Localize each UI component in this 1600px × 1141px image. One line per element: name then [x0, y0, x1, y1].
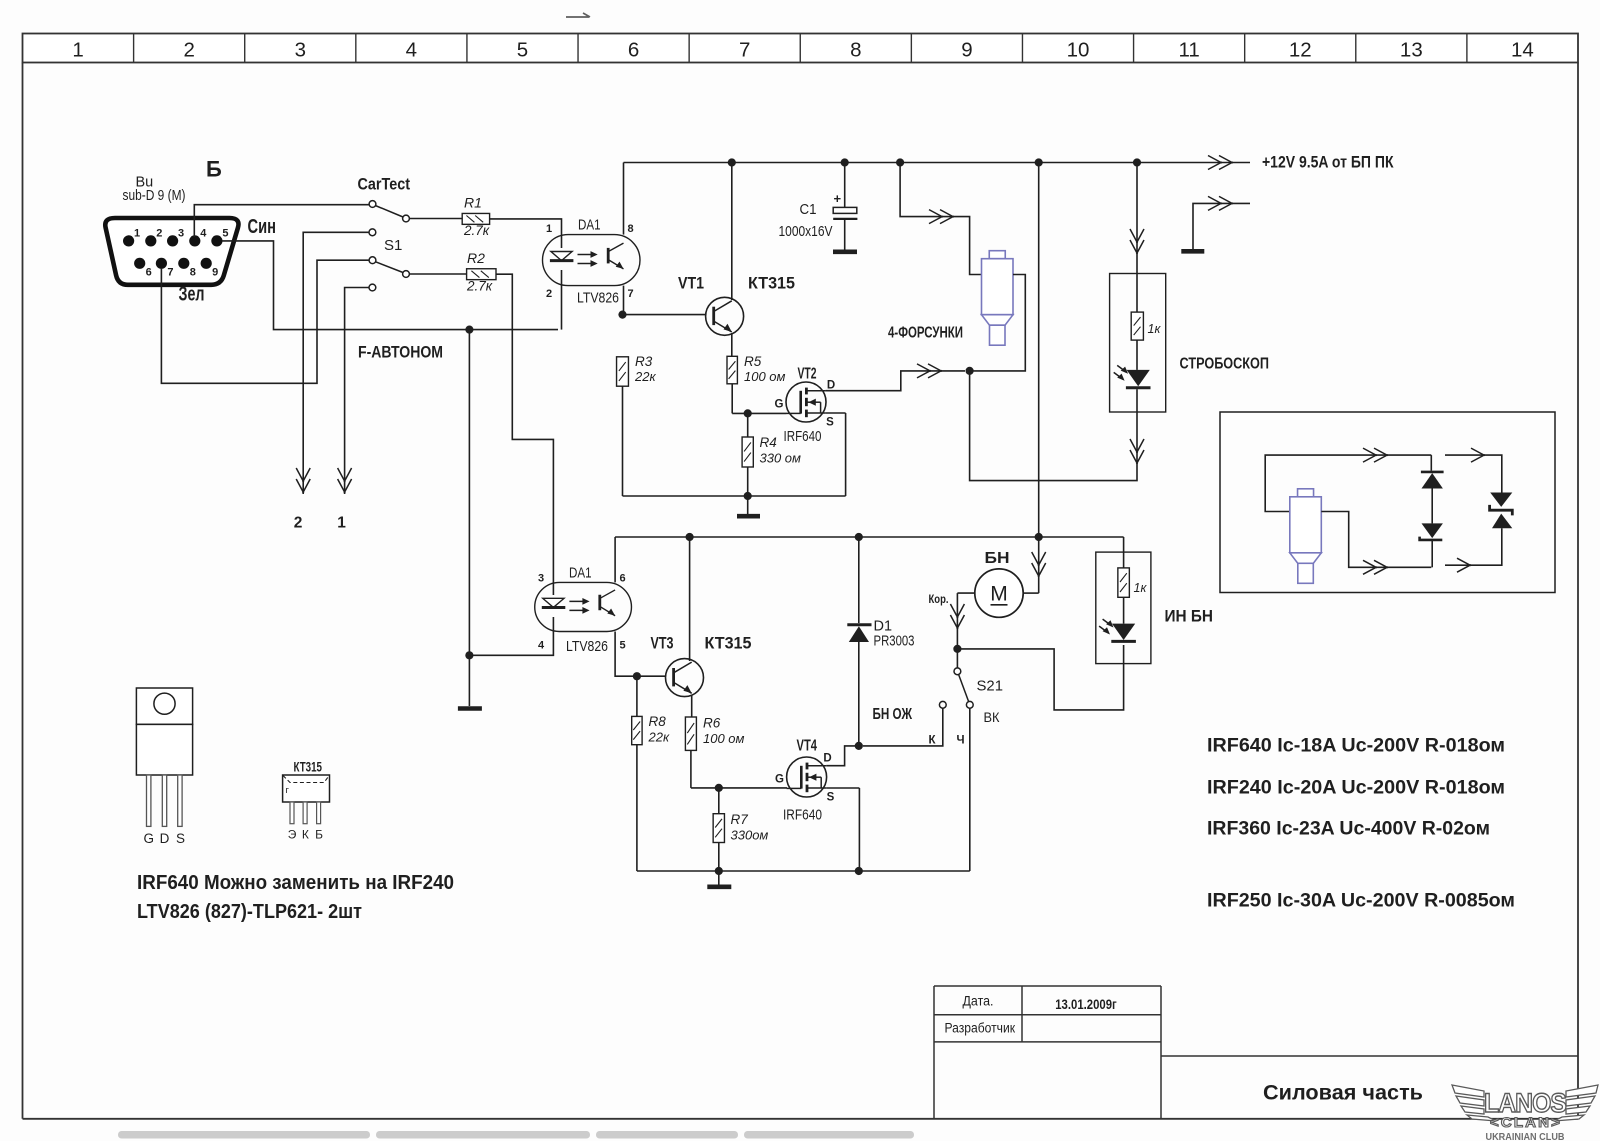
wire VT1 emitter to R5: [731, 333, 733, 356]
wire to S21: [956, 649, 958, 668]
svg-text:1: 1: [546, 223, 552, 235]
wire strobe r top: [1136, 274, 1138, 313]
svg-text:M: M: [990, 583, 1008, 606]
wire rail to lower rail: [1038, 163, 1040, 538]
gnd bus VT1 stage: [623, 495, 846, 497]
wire R2 to opto2 pin3: [496, 274, 553, 595]
svg-text:4: 4: [200, 228, 207, 240]
wire opto pin2 down: [561, 270, 563, 330]
wire to VT4 gate: [691, 787, 787, 789]
svg-text:9: 9: [212, 267, 218, 279]
svg-text:S21: S21: [977, 678, 1004, 695]
LED strobe: [1114, 365, 1151, 387]
svg-text:sub-D 9 (M): sub-D 9 (M): [123, 188, 186, 204]
svg-text:VT3: VT3: [651, 634, 674, 653]
svg-text:Б: Б: [206, 157, 222, 182]
wire VT1 collector to rail: [731, 163, 733, 301]
junction: [896, 158, 904, 166]
arrow strobe out: [1130, 439, 1144, 464]
svg-text:5: 5: [517, 39, 528, 62]
svg-text:D1: D1: [874, 619, 893, 635]
svg-text:14: 14: [1511, 39, 1534, 62]
transistor VT3 KT315: [666, 659, 704, 697]
svg-text:R4: R4: [760, 435, 777, 450]
arrow TVS top: [1471, 448, 1485, 462]
wire Sin gnd drop: [468, 330, 470, 656]
svg-text:G: G: [775, 399, 784, 411]
svg-text:<CLAN>: <CLAN>: [1490, 1114, 1562, 1130]
junction C1: [841, 158, 849, 166]
wire K to VT4 drain: [863, 708, 943, 746]
title block left: [933, 986, 935, 1119]
resistor R3: [617, 357, 629, 386]
svg-text:4: 4: [406, 39, 417, 62]
wire R1 to opto pin1: [490, 219, 562, 248]
resistor R4: [742, 437, 753, 467]
LANOS CLAN logo: [1452, 1085, 1598, 1141]
svg-text:8: 8: [627, 223, 633, 235]
junction: [855, 867, 863, 875]
svg-text:ВК: ВК: [984, 709, 1001, 725]
arrow +12V: [1208, 156, 1233, 170]
wire strobe r to LED: [1136, 340, 1138, 370]
arrow injector low: [917, 364, 942, 378]
svg-text:VT1: VT1: [678, 274, 704, 293]
wire C1 to gnd: [844, 219, 846, 250]
KT315 leg: [303, 802, 307, 824]
motor BN: [975, 569, 1023, 617]
KT315 package: [283, 775, 330, 802]
svg-text:ИН БН: ИН БН: [1165, 607, 1214, 626]
wire R7 down: [718, 843, 720, 872]
svg-text:6: 6: [619, 573, 625, 585]
CarTect lever: [375, 206, 403, 218]
resistor R6: [685, 717, 696, 750]
wire source to gnd bus: [858, 788, 860, 871]
svg-text:1к: 1к: [1148, 322, 1162, 336]
ruler divider: [1355, 34, 1357, 63]
svg-text:2.7к: 2.7к: [463, 223, 490, 238]
injector 4-FORSUNKI: [982, 251, 1014, 346]
svg-text:2: 2: [156, 228, 162, 240]
ruler divider: [133, 34, 135, 63]
wire test bottom: [1321, 512, 1431, 568]
svg-text:IRF250 Ic-30A Uc-200V R-0085: IRF250 Ic-30A Uc-200V R-0085ом: [1207, 891, 1515, 912]
arrow strobe in: [1130, 229, 1144, 254]
svg-text:IRF360 Ic-23A Uc-400V R-02ом: IRF360 Ic-23A Uc-400V R-02ом: [1207, 819, 1490, 840]
wire motor to switch: [956, 593, 958, 649]
title block line: [934, 1041, 1161, 1043]
wire to connector 1: [345, 288, 369, 495]
svg-text:R3: R3: [635, 354, 653, 369]
junction: [715, 867, 723, 875]
svg-text:Дата.: Дата.: [963, 994, 994, 1009]
resistor R5: [727, 356, 737, 384]
TO-220 leg: [147, 775, 151, 826]
S1 contact upper: [369, 257, 376, 264]
arrow test top: [1363, 448, 1388, 462]
svg-text:2: 2: [183, 39, 194, 62]
DB9 pin 6: [134, 258, 145, 269]
resistor R8: [632, 716, 642, 744]
mosfet VT2 IRF640: [786, 382, 826, 422]
svg-text:1: 1: [134, 228, 140, 240]
svg-text:DA1: DA1: [578, 217, 601, 234]
arrow Kor: [950, 604, 964, 629]
optocoupler DA1 upper: [543, 235, 640, 286]
DB9 pin 8: [178, 258, 189, 269]
capacitor C1 1000x16V: [833, 207, 857, 219]
svg-text:1к: 1к: [1134, 581, 1148, 595]
svg-text:1: 1: [337, 515, 346, 532]
DB9 pin 5: [211, 235, 222, 246]
wire VT2 drain: [826, 371, 965, 391]
title block divider: [1021, 986, 1023, 1042]
S21 moving contact: [954, 668, 961, 675]
svg-text:К: К: [302, 828, 309, 842]
ground return: [1181, 249, 1204, 254]
svg-text:3: 3: [178, 228, 184, 240]
svg-text:Силовая часть: Силовая часть: [1263, 1081, 1423, 1105]
svg-text:7: 7: [627, 288, 633, 300]
svg-text:5: 5: [619, 640, 625, 652]
junction: [855, 533, 863, 541]
title block line: [934, 1014, 1161, 1016]
ruler divider: [355, 34, 357, 63]
lower +12 rail: [615, 536, 1124, 538]
wire R3 to gnd rail: [622, 386, 624, 496]
wire D1 cathode to rail: [858, 537, 860, 623]
TVS bidirectional: [1490, 493, 1513, 529]
svg-text:4-ФОРСУНКИ: 4-ФОРСУНКИ: [888, 325, 963, 342]
junction gnd bus: [744, 492, 752, 500]
svg-text:22к: 22к: [648, 730, 670, 745]
LED IN BN: [1099, 619, 1136, 641]
+12V rail: [624, 162, 1251, 164]
junction: [686, 533, 694, 541]
svg-text:D: D: [823, 753, 831, 765]
arrow test bottom: [1363, 560, 1388, 574]
ruler divider: [910, 34, 912, 63]
wire VT3 emitter: [691, 695, 693, 718]
svg-text:г: г: [286, 785, 290, 796]
DB9 pin 7: [156, 258, 167, 269]
svg-text:S1: S1: [384, 237, 402, 254]
+12V return stub: [1193, 203, 1250, 249]
svg-text:КТ315: КТ315: [748, 274, 795, 293]
svg-text:LTV826 (827)-TLP621- 2шт: LTV826 (827)-TLP621- 2шт: [137, 900, 362, 923]
ground opto: [458, 706, 482, 711]
junction: [1035, 158, 1043, 166]
svg-text:1: 1: [72, 39, 83, 62]
IN BN box: [1096, 552, 1151, 664]
wire rail to motor: [1038, 537, 1040, 593]
svg-text:6: 6: [628, 39, 639, 62]
wire TVS top: [1445, 455, 1502, 492]
svg-text:330ом: 330ом: [731, 828, 769, 843]
svg-text:D: D: [160, 831, 170, 846]
left page border: [22, 63, 24, 1119]
junction gnd: [465, 651, 473, 659]
wire VT3 collector: [689, 537, 691, 661]
transistor VT1 KT315: [706, 297, 744, 335]
title block right: [1160, 986, 1162, 1119]
S21 contact K: [939, 701, 946, 708]
svg-text:IRF640 Ic-18A Uc-200V R-018о: IRF640 Ic-18A Uc-200V R-018ом: [1207, 736, 1505, 757]
S1 contact common: [403, 271, 410, 278]
svg-text:12: 12: [1289, 39, 1312, 62]
DB9 pin 9: [201, 258, 212, 269]
wire pin7 Zel to S1: [161, 260, 369, 383]
wire rail to injectors: [900, 163, 981, 275]
svg-text:D: D: [827, 380, 835, 392]
resistor 1k strobe: [1131, 312, 1143, 340]
KT315 leg: [290, 802, 294, 824]
svg-text:Разработчик: Разработчик: [945, 1021, 1016, 1036]
junction switch top: [953, 645, 961, 653]
svg-text:4: 4: [538, 640, 545, 652]
svg-text:F-АВТОНОМ: F-АВТОНОМ: [358, 343, 443, 362]
svg-text:G: G: [143, 831, 154, 846]
ruler divider: [244, 34, 246, 63]
svg-text:CarTect: CarTect: [358, 176, 411, 194]
diode up: [1421, 472, 1444, 489]
resistor R7: [713, 814, 724, 843]
wire rail to strobe: [1136, 163, 1138, 274]
svg-text:10: 10: [1067, 39, 1090, 62]
resistor R2: [467, 269, 496, 280]
svg-text:2: 2: [546, 288, 552, 300]
KT315 leg: [317, 802, 321, 824]
junction injector low: [966, 367, 974, 375]
ground C1: [833, 250, 857, 255]
diode down: [1420, 523, 1443, 540]
top margin tick: [566, 13, 590, 17]
svg-text:3: 3: [295, 39, 306, 62]
arrow TVS bottom: [1457, 558, 1471, 572]
ruler divider: [1133, 34, 1135, 63]
wire D1 anode: [858, 642, 860, 746]
wire to stroboscope bottom: [970, 371, 1137, 481]
wire to R8: [636, 676, 638, 716]
wire CarTect to R1: [410, 218, 463, 220]
svg-text:22к: 22к: [634, 369, 656, 384]
svg-text:БН ОЖ: БН ОЖ: [873, 706, 913, 723]
ruler divider: [799, 34, 801, 63]
svg-text:S: S: [826, 417, 834, 429]
DB9 pin 1: [123, 235, 134, 246]
gnd bus VT4 stage: [637, 870, 970, 872]
arrow down wire 2: [296, 468, 310, 493]
wire pin4 to CarTect: [194, 205, 369, 237]
wire pin5 Sin rail: [222, 241, 558, 330]
svg-text:C1: C1: [800, 201, 817, 218]
ruler divider: [1466, 34, 1468, 63]
TO-220 package: [136, 688, 192, 775]
svg-text:S: S: [827, 792, 835, 804]
svg-text:7: 7: [167, 267, 173, 279]
svg-text:LTV826: LTV826: [577, 290, 619, 307]
svg-text:G: G: [775, 774, 784, 786]
svg-text:IRF640: IRF640: [783, 807, 822, 824]
junction: [1035, 533, 1043, 541]
junction: [1133, 158, 1141, 166]
arrow injector high: [929, 210, 954, 224]
svg-text:+: +: [834, 191, 842, 206]
svg-text:IRF640: IRF640: [784, 428, 822, 445]
TO-220 leg: [178, 775, 182, 826]
svg-text:Син: Син: [248, 216, 277, 238]
wire motor left: [957, 592, 974, 594]
wire S1 to R2: [410, 273, 467, 275]
svg-text:7: 7: [739, 39, 750, 62]
svg-text:S: S: [176, 831, 185, 846]
junction VT4 drain/D1: [855, 742, 863, 750]
svg-text:LTV826: LTV826: [566, 638, 608, 655]
ground lower: [707, 884, 731, 889]
svg-text:R2: R2: [467, 250, 485, 266]
title block line: [934, 985, 1161, 987]
gnd stub lower: [718, 871, 720, 885]
svg-text:БН: БН: [985, 550, 1010, 567]
wire pin4 to gnd: [469, 617, 553, 655]
injector test: [1290, 489, 1322, 584]
svg-text:Зел: Зел: [179, 284, 205, 306]
junction: [728, 158, 736, 166]
wire pin5 to VT3 base: [615, 632, 666, 677]
svg-text:PR3003: PR3003: [874, 634, 915, 650]
title area line: [1161, 1055, 1578, 1057]
svg-text:+12V 9.5A от БП ПК: +12V 9.5A от БП ПК: [1262, 154, 1394, 172]
CarTect contact common: [403, 215, 410, 222]
resistor 1k IN BN: [1118, 568, 1130, 597]
arrow down wire 1: [338, 468, 352, 493]
svg-text:1000x16V: 1000x16V: [779, 223, 833, 240]
wire test top: [1265, 455, 1431, 511]
svg-text:КТ315: КТ315: [705, 634, 752, 653]
wire opto pin8 to +12 rail: [623, 163, 625, 235]
arrow motor in: [1032, 552, 1046, 577]
svg-text:Б: Б: [315, 828, 323, 842]
wire to VT2 gate: [732, 412, 786, 414]
optocoupler DA1 lower: [535, 582, 632, 631]
svg-text:VT2: VT2: [798, 366, 817, 383]
injector return loop: [970, 275, 1026, 371]
svg-text:R5: R5: [744, 354, 762, 369]
wire R4 down: [747, 467, 749, 496]
bottom page border: [23, 1118, 1579, 1120]
svg-text:3: 3: [538, 573, 544, 585]
svg-text:8: 8: [850, 39, 861, 62]
wire to ground: [468, 655, 470, 706]
wire R5 down: [731, 384, 733, 414]
wire VT2 source: [826, 412, 846, 414]
svg-text:К: К: [929, 735, 937, 747]
svg-text:330 ом: 330 ом: [760, 451, 802, 466]
S1 contact lower: [369, 284, 376, 291]
wire to C1: [844, 163, 846, 208]
wire R8 to gnd bus: [636, 745, 638, 871]
mosfet VT4 IRF640: [787, 757, 827, 797]
wire to R4: [747, 413, 749, 437]
wire VT4 source: [826, 787, 859, 789]
svg-text:100 ом: 100 ом: [744, 369, 786, 384]
svg-text:R6: R6: [703, 716, 721, 731]
faded scan text strip: [118, 1131, 914, 1139]
svg-text:5: 5: [222, 228, 228, 240]
stroboscope box: [1110, 274, 1166, 413]
TO-220 leg: [162, 775, 166, 826]
svg-text:IRF240 Ic-20A Uc-200V R-018о: IRF240 Ic-20A Uc-200V R-018ом: [1207, 778, 1505, 799]
ground: [737, 514, 760, 519]
junction gate/R7: [715, 784, 723, 792]
svg-text:IRF640 Можно заменить на IRF24: IRF640 Можно заменить на IRF240: [137, 871, 454, 894]
DB9 pin 2: [145, 235, 156, 246]
wire r to LED INBN: [1123, 597, 1125, 623]
diode test box: [1220, 412, 1555, 593]
ruler band: [23, 34, 1579, 63]
wire opto pin7 down: [623, 286, 625, 315]
wire between diodes: [1431, 489, 1433, 524]
svg-text:Кор.: Кор.: [929, 594, 949, 606]
wire to connector 2: [303, 232, 369, 494]
ruler divider: [1244, 34, 1246, 63]
svg-text:R8: R8: [649, 714, 667, 729]
S21 contact Ch: [966, 701, 973, 708]
DB9 pin 3: [167, 235, 178, 246]
wire source to gnd bus: [845, 413, 847, 496]
ruler divider: [688, 34, 690, 63]
DB9 pin 4: [189, 235, 200, 246]
arrow return: [1208, 196, 1233, 210]
junction gate/R4: [744, 409, 752, 417]
wire base VT1: [623, 314, 706, 316]
svg-text:R1: R1: [464, 195, 482, 211]
gnd stub: [747, 496, 749, 514]
svg-text:6: 6: [146, 267, 152, 279]
CarTect contact upper: [369, 201, 376, 208]
DB9 connector Bu sub-D 9 (M): [105, 218, 238, 285]
junction pin7/R3: [618, 311, 626, 319]
wire VK to gnd bus: [969, 708, 971, 871]
svg-text:9: 9: [961, 39, 972, 62]
wire TVS bottom: [1445, 528, 1502, 565]
wire R6 down: [690, 750, 692, 788]
wire diode pair top: [1430, 455, 1432, 471]
wire pin6 up to rail: [614, 537, 616, 582]
svg-text:13: 13: [1400, 39, 1423, 62]
resistor R1: [462, 213, 489, 224]
diode D1 PR3003: [847, 625, 871, 642]
wire strobe LED down: [1136, 389, 1138, 412]
wire rail to IN BN: [1123, 537, 1125, 568]
wire motor right: [1023, 592, 1038, 594]
svg-text:2: 2: [294, 515, 303, 532]
svg-text:8: 8: [190, 267, 196, 279]
S21 lever: [959, 675, 969, 702]
wire diode pair bottom: [1431, 540, 1433, 567]
svg-text:R7: R7: [731, 812, 749, 827]
svg-text:2.7к: 2.7к: [466, 279, 493, 294]
svg-text:Ч: Ч: [957, 735, 965, 747]
svg-text:VT4: VT4: [797, 738, 818, 755]
wire to IN BN return: [957, 645, 1123, 710]
ruler divider: [466, 34, 468, 63]
svg-text:Э: Э: [288, 828, 297, 842]
junction base/R8: [633, 672, 641, 680]
CarTect contact lower: [369, 229, 376, 236]
svg-text:UKRAINIAN CLUB: UKRAINIAN CLUB: [1486, 1132, 1565, 1141]
